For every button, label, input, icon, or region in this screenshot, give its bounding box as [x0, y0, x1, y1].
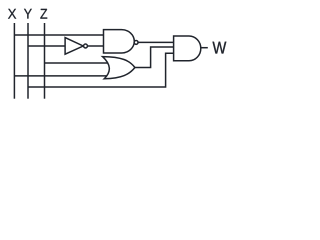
NAND gate U2 bubble — [134, 40, 138, 44]
wire OR output to AND input B — [135, 47, 175, 68]
wire Y to AND input C (bottom route) — [28, 53, 175, 87]
wire Y to inverter input — [28, 45, 66, 47]
NAND gate U2 body — [104, 30, 135, 53]
label W — [213, 42, 227, 54]
wire NAND output to AND input A — [138, 41, 174, 43]
label Y — [24, 9, 32, 19]
AND gate U4 body — [174, 36, 201, 61]
input rail Y — [27, 23, 29, 99]
input rail X — [13, 23, 15, 99]
input rail Z — [44, 23, 46, 99]
OR gate U3 body — [103, 57, 135, 79]
inverter U1 triangle — [65, 38, 83, 55]
wire X to NAND input A — [14, 34, 104, 36]
wire AND output to W — [201, 47, 208, 49]
wire Z to OR input A — [45, 62, 108, 64]
wire X to OR input B — [14, 75, 107, 77]
label X — [8, 9, 16, 19]
wire inverter output to NAND input B — [88, 45, 105, 47]
label Z — [40, 9, 47, 19]
inverter U1 bubble — [84, 44, 88, 48]
